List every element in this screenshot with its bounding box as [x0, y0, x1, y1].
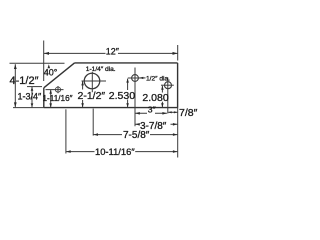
dimension 2.080 line — [161, 86, 163, 107]
svg-text:2-1/2″: 2-1/2″ — [78, 90, 106, 102]
arrow 3 right — [162, 112, 167, 115]
arrow 7-5/8 left — [94, 133, 99, 136]
corner hole v-centerline — [57, 86, 59, 93]
hole2 v-centerline — [167, 78, 169, 114]
dimension 7/8 line — [168, 111, 177, 113]
corner hole circle — [55, 87, 60, 92]
dimension 3 line — [135, 112, 167, 114]
extension line left vertical for 12 — [43, 41, 45, 82]
hole1 h-centerline — [128, 77, 142, 79]
hole2 circle — [165, 82, 172, 89]
arrow 10-11/16 right — [173, 150, 178, 153]
large hole v-centerline — [91, 72, 93, 92]
arrow 2.080 bottom — [161, 103, 164, 107]
arrow 1-3/4 bottom — [31, 103, 34, 107]
arrow 7-5/8 right — [173, 133, 178, 136]
extension line right vertical below part — [177, 108, 179, 158]
svg-text:3″: 3″ — [148, 104, 156, 114]
part outline bottom edge — [44, 107, 178, 109]
arrow 10-11/16 left — [66, 150, 71, 153]
extension line bottom-left for 4-1/2 — [13, 107, 44, 109]
arrow 12 left — [44, 52, 49, 55]
svg-text:7-5/8″: 7-5/8″ — [123, 130, 150, 141]
dimension 4-1/2 line — [14, 64, 16, 107]
part outline top edge — [75, 62, 178, 64]
arrow 3 left — [135, 112, 140, 115]
arrow 2.080 top — [161, 86, 164, 90]
arrow 7/8 left — [168, 111, 172, 113]
arrow 2-1/2 top — [81, 81, 84, 85]
dimension 1-11/16 line — [50, 90, 52, 108]
leader 1/2 dia — [139, 77, 145, 79]
hole2 h-centerline — [161, 84, 174, 86]
svg-text:12″: 12″ — [106, 47, 120, 57]
arrow 1-11/16 bottom — [49, 103, 52, 107]
part outline left edge — [43, 88, 45, 108]
dimension 12 line — [44, 52, 178, 54]
hole1 v-centerline — [134, 68, 136, 127]
extension line for 10-11/16 left — [65, 109, 67, 153]
arrow 7/8 right — [174, 111, 178, 113]
arrow 3-7/8 right — [173, 123, 178, 126]
svg-text:40°: 40° — [44, 67, 58, 77]
arrow 4-1/2 bottom — [14, 102, 17, 107]
dimension 7-5/8 line — [94, 134, 178, 136]
arrow 2-1/2 bottom — [81, 103, 84, 107]
dimension 1-3/4 top reference — [27, 86, 42, 88]
hole1 circle 1/2 dia — [132, 75, 139, 82]
svg-text:1-1/4″ dia.: 1-1/4″ dia. — [86, 66, 116, 73]
svg-text:1-11/16″: 1-11/16″ — [43, 94, 73, 103]
part chamfer 40deg — [44, 63, 75, 88]
dimension 2-1/2 line — [82, 81, 84, 107]
arrow 12 right — [173, 52, 178, 55]
svg-text:2.080: 2.080 — [142, 92, 168, 104]
corner hole h-centerline — [46, 89, 64, 91]
arrow 2.530 bottom — [126, 103, 129, 107]
svg-text:1/2″ dia.: 1/2″ dia. — [146, 75, 170, 82]
large hole circle 1-1/4 dia — [84, 73, 100, 89]
extension line right vertical top for 12 — [177, 45, 179, 61]
svg-text:10-11/16″: 10-11/16″ — [95, 146, 135, 157]
svg-text:1-3/4″: 1-3/4″ — [18, 91, 43, 101]
arrow 1-3/4 top — [31, 87, 34, 91]
large hole h-centerline — [82, 80, 107, 82]
arrow leader 1/2 dia — [139, 77, 143, 79]
extension line top-left for 4-1/2 — [10, 62, 65, 64]
part outline right edge — [177, 63, 179, 108]
dimension 10-11/16 line — [66, 151, 177, 153]
arrow 3-7/8 left — [135, 123, 140, 126]
dimension 1-3/4 line — [31, 87, 33, 108]
dimension 2.530 line — [127, 79, 129, 108]
arrow 1-11/16 top — [49, 90, 52, 94]
svg-text:2.530: 2.530 — [109, 90, 135, 102]
svg-text:4-1/2″: 4-1/2″ — [10, 75, 39, 87]
arrow 2.530 top — [126, 79, 129, 83]
dimension 3-7/8 line — [135, 123, 177, 125]
arrow 40deg — [48, 64, 51, 68]
large hole extension below for 7-5/8 — [92, 109, 94, 136]
svg-text:7/8″: 7/8″ — [179, 107, 198, 119]
arrow 4-1/2 top — [14, 64, 17, 69]
